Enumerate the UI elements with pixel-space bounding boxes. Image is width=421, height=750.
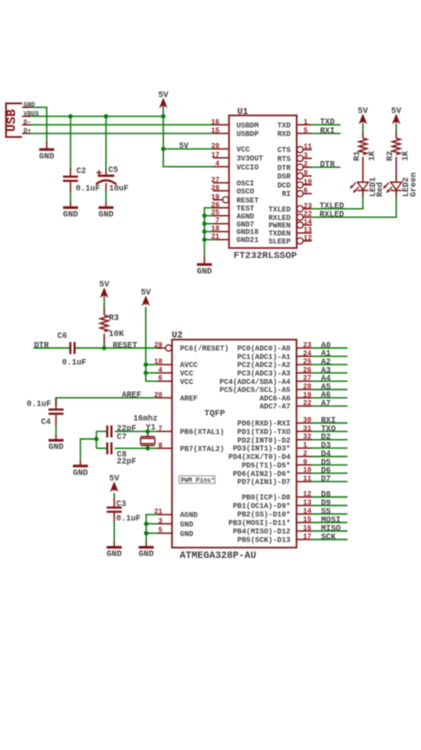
wire XTAL2 net xyxy=(115,447,157,449)
svg-text:GND: GND xyxy=(48,442,63,452)
U2 pin 17 PB5(SCK)-D13 xyxy=(237,534,311,546)
svg-text:12: 12 xyxy=(304,235,312,243)
U2 pin 8 PB7(XTAL2) xyxy=(157,442,224,454)
svg-text:DCD: DCD xyxy=(277,182,291,190)
U2 pin 20 AREF xyxy=(154,392,198,404)
capacitor C4 0.1uF xyxy=(27,398,64,435)
svg-text:USBDM: USBDM xyxy=(237,122,260,130)
svg-text:GND: GND xyxy=(73,468,88,478)
svg-text:C3: C3 xyxy=(116,500,126,509)
svg-text:6: 6 xyxy=(158,375,162,383)
svg-text:PD1(TXD)-TXO: PD1(TXD)-TXO xyxy=(237,429,291,437)
svg-text:GND21: GND21 xyxy=(237,237,260,245)
wire net D8 xyxy=(312,496,348,498)
svg-text:2: 2 xyxy=(304,161,308,169)
svg-text:0.1uF: 0.1uF xyxy=(76,184,100,193)
svg-text:ADC6-A6: ADC6-A6 xyxy=(259,395,291,403)
svg-text:GND18: GND18 xyxy=(237,229,260,237)
svg-text:5: 5 xyxy=(158,527,162,535)
svg-text:30: 30 xyxy=(303,417,311,425)
svg-text:PD3(INT1)-D3*: PD3(INT1)-D3* xyxy=(233,446,291,454)
svg-text:Green: Green xyxy=(409,172,418,197)
wire RESET net xyxy=(76,347,162,349)
svg-text:D-: D- xyxy=(24,119,32,126)
ground (USB shell) xyxy=(39,141,54,161)
U2 pin 4 VCC xyxy=(157,367,194,379)
capacitor C5 10uF polarized xyxy=(96,116,129,202)
svg-text:GND: GND xyxy=(39,151,54,161)
U1 pin 17 3V3OUT xyxy=(211,152,264,164)
U2 pin 24 PC1(ADC1)-A1 xyxy=(237,350,311,362)
svg-text:10uF: 10uF xyxy=(109,184,129,193)
svg-text:DTR: DTR xyxy=(277,165,291,173)
wire net D3 xyxy=(312,447,348,449)
svg-text:PB3(MOSI)-D11*: PB3(MOSI)-D11* xyxy=(228,520,290,528)
svg-text:PC3(ADC3)-A3: PC3(ADC3)-A3 xyxy=(237,371,291,379)
svg-text:PC2(ADC2)-A2: PC2(ADC2)-A2 xyxy=(237,362,290,370)
junction 5V/VCC wire xyxy=(161,147,165,151)
svg-text:DTR: DTR xyxy=(34,342,49,351)
svg-text:OSCI: OSCI xyxy=(237,180,255,188)
wire RXLED net to LED2 xyxy=(312,197,396,217)
svg-text:7: 7 xyxy=(215,218,219,226)
svg-text:15: 15 xyxy=(211,127,219,135)
svg-text:RXD: RXD xyxy=(277,131,291,139)
svg-text:7: 7 xyxy=(158,425,162,433)
svg-text:Red: Red xyxy=(375,182,385,197)
wire net TXO xyxy=(312,430,348,432)
U2 pin 30 PD0(RXD)-RXI xyxy=(237,417,311,429)
U2 pin 3 GND xyxy=(157,518,194,530)
svg-text:RXI: RXI xyxy=(320,127,335,136)
U1 pin 28 OSCO xyxy=(211,185,255,197)
U1 pin 2 DTR xyxy=(277,161,311,173)
svg-text:PB2(SS)-D10*: PB2(SS)-D10* xyxy=(237,512,290,520)
svg-text:17: 17 xyxy=(303,534,311,542)
wire RXI net xyxy=(312,132,341,134)
svg-text:TXD: TXD xyxy=(277,122,291,130)
svg-text:1: 1 xyxy=(304,119,308,127)
svg-text:25: 25 xyxy=(303,359,311,367)
U2 pin 1 PD3(INT1)-D3* xyxy=(233,442,312,454)
svg-text:GND: GND xyxy=(180,521,194,529)
wire net D9 xyxy=(312,505,348,507)
svg-text:PD7(AIN1)-D7: PD7(AIN1)-D7 xyxy=(237,479,290,487)
svg-text:20: 20 xyxy=(154,392,162,400)
svg-text:AGND: AGND xyxy=(180,512,198,520)
svg-text:C5: C5 xyxy=(108,166,118,175)
svg-text:1K: 1K xyxy=(401,150,411,161)
svg-text:22: 22 xyxy=(304,211,312,219)
PWM Pins note box xyxy=(179,476,215,484)
svg-text:R1: R1 xyxy=(352,151,362,161)
junction XTAL2/Y1 xyxy=(146,446,150,450)
U2 pin 12 PB0(ICP)-D8 xyxy=(242,491,312,503)
svg-text:GND: GND xyxy=(63,209,78,219)
5V supply xyxy=(391,106,402,123)
svg-text:R3: R3 xyxy=(109,313,119,323)
U2 pin 9 PD5(T1)-D5* xyxy=(242,459,312,471)
junction VBUS/C5 xyxy=(104,114,108,118)
junction GND pin5 xyxy=(144,531,148,535)
svg-text:14: 14 xyxy=(303,508,311,516)
wire DTR net xyxy=(312,166,341,168)
U2 pin 13 PB1(OC1A)-D9* xyxy=(233,500,312,512)
resistor R2 1K xyxy=(385,131,410,166)
svg-text:4: 4 xyxy=(215,161,219,169)
svg-text:16: 16 xyxy=(303,525,311,533)
svg-text:RESET: RESET xyxy=(113,342,138,351)
U1 pin 25 AGND xyxy=(211,210,255,222)
U1 pin 11 CTS xyxy=(277,144,312,156)
svg-text:OSCO: OSCO xyxy=(237,188,255,196)
svg-text:RXLED: RXLED xyxy=(269,215,292,223)
junction VCC pin4 xyxy=(144,371,148,375)
svg-text:FT232RLSSOP: FT232RLSSOP xyxy=(234,250,298,261)
wire net RXI xyxy=(312,422,348,424)
svg-text:23: 23 xyxy=(303,342,311,350)
U2 pin 11 PD7(AIN1)-D7 xyxy=(237,476,311,488)
crystal Y1 16mhz xyxy=(133,415,157,449)
svg-text:PD4(XCK/T0)-D4: PD4(XCK/T0)-D4 xyxy=(228,454,291,462)
resistor R3 10K xyxy=(100,307,125,348)
svg-text:USBDP: USBDP xyxy=(237,131,260,139)
wire net A1 xyxy=(312,355,348,357)
svg-text:PWREN: PWREN xyxy=(269,223,291,231)
svg-text:1: 1 xyxy=(303,442,307,450)
svg-text:GND: GND xyxy=(107,549,122,559)
wire net D5 xyxy=(312,464,348,466)
svg-text:PD6(AIN2)-D6*: PD6(AIN2)-D6* xyxy=(233,471,291,479)
wire AGND/GND pins to ground xyxy=(146,515,157,542)
U2 pin 26 PC3(ADC3)-A3 xyxy=(237,367,311,379)
svg-text:AREF: AREF xyxy=(122,391,142,400)
U2 pin 14 PB2(SS)-D10* xyxy=(237,508,311,520)
wire net SS xyxy=(312,513,348,515)
U1 pin 23 TXLED xyxy=(269,203,312,215)
LED LED1 Red xyxy=(350,166,385,197)
svg-text:2: 2 xyxy=(303,451,307,459)
svg-text:21: 21 xyxy=(154,509,162,517)
wire net SCK xyxy=(312,539,348,541)
svg-text:D7: D7 xyxy=(321,475,331,484)
wire D+ to U1 USBDP xyxy=(31,132,214,134)
svg-text:28: 28 xyxy=(303,384,311,392)
svg-text:C2: C2 xyxy=(76,167,86,176)
junction GND pins 25 xyxy=(202,214,206,218)
wire VBUS net xyxy=(31,115,164,117)
svg-text:RTS: RTS xyxy=(277,156,291,164)
5V supply xyxy=(99,280,110,297)
svg-text:9: 9 xyxy=(303,459,307,467)
U1 pin 9 DSR xyxy=(277,170,311,182)
svg-text:VCC: VCC xyxy=(237,147,251,155)
U2 pin 29 PC6(/RESET) xyxy=(154,342,229,354)
U2 pin 2 PD4(XCK/T0)-D4 xyxy=(228,451,311,463)
svg-text:26: 26 xyxy=(303,367,311,375)
U1 pin 4 VCCIO xyxy=(213,161,259,173)
wire net MOSI xyxy=(312,522,348,524)
svg-text:4: 4 xyxy=(158,367,162,375)
svg-text:11: 11 xyxy=(304,144,312,152)
svg-text:14: 14 xyxy=(304,219,312,227)
U1 pin 26 TEST xyxy=(211,202,255,214)
wire 5V arrow stem xyxy=(162,107,164,117)
wire 5V to R3 xyxy=(103,297,105,307)
svg-text:18: 18 xyxy=(211,226,219,234)
5V supply xyxy=(109,474,120,491)
junction VBUS/5V xyxy=(161,114,165,118)
U1 pin 22 RXLED xyxy=(269,211,312,223)
svg-text:PB6(XTAL1): PB6(XTAL1) xyxy=(180,429,224,437)
svg-text:0.1uF: 0.1uF xyxy=(62,358,86,367)
svg-text:C7: C7 xyxy=(117,433,127,442)
svg-text:PC1(ADC1)-A1: PC1(ADC1)-A1 xyxy=(237,354,291,362)
U1 pin 14 PWREN xyxy=(269,219,312,231)
wire DTR to C6 xyxy=(34,347,71,349)
svg-text:9: 9 xyxy=(304,170,308,178)
svg-text:13: 13 xyxy=(304,227,312,235)
wire TXD net xyxy=(312,124,341,126)
capacitor C2 0.1uF xyxy=(63,116,100,202)
wire net D4 xyxy=(312,456,348,458)
wire net MISO xyxy=(312,530,348,532)
svg-text:5V: 5V xyxy=(109,474,120,484)
U1 pin 20 VCC xyxy=(211,143,250,155)
svg-text:GND: GND xyxy=(197,266,212,276)
wire net A5 xyxy=(312,389,348,391)
svg-text:PC4(ADC4/SDA)-A4: PC4(ADC4/SDA)-A4 xyxy=(220,379,292,387)
svg-text:VCC: VCC xyxy=(180,379,194,387)
U2 pin 31 PD1(TXD)-TXO xyxy=(237,425,311,437)
U1 pin 16 USBDM xyxy=(211,119,259,131)
svg-text:5V: 5V xyxy=(99,280,110,290)
U2 pin 10 PD6(AIN2)-D6* xyxy=(233,467,312,479)
svg-text:PC0(ADC0)-A0: PC0(ADC0)-A0 xyxy=(237,346,291,354)
svg-text:U1: U1 xyxy=(237,107,248,117)
wire net A4 xyxy=(312,380,348,382)
svg-text:5: 5 xyxy=(304,127,308,135)
5V supply xyxy=(358,106,369,123)
svg-text:TEST: TEST xyxy=(237,205,255,213)
svg-text:0.1uF: 0.1uF xyxy=(27,400,51,409)
svg-text:PB5(SCK)-D13: PB5(SCK)-D13 xyxy=(237,537,291,545)
svg-text:ADC7-A7: ADC7-A7 xyxy=(259,404,290,412)
U1 pin 13 TXDEN xyxy=(269,227,312,239)
svg-text:17: 17 xyxy=(211,152,219,160)
svg-text:DTR: DTR xyxy=(320,161,335,170)
svg-text:TXDEN: TXDEN xyxy=(269,231,291,239)
ground (C2) xyxy=(63,202,78,219)
IC U2 ATMEGA328P body xyxy=(172,330,297,561)
svg-text:25: 25 xyxy=(211,210,219,218)
wire U1 TEST/AGND/GND pins to ground xyxy=(204,208,213,257)
svg-text:U2: U2 xyxy=(172,330,183,340)
wire net A0 xyxy=(312,347,348,349)
svg-text:15: 15 xyxy=(303,517,311,525)
U2 pin 25 PC2(ADC2)-A2 xyxy=(237,359,311,371)
svg-text:RESET: RESET xyxy=(237,197,260,205)
U2 pin 16 PB4(MISO)-D12 xyxy=(233,525,312,537)
svg-text:AGND: AGND xyxy=(237,213,255,221)
svg-text:PB4(MISO)-D12: PB4(MISO)-D12 xyxy=(233,529,291,537)
wire 5V to C3 xyxy=(113,493,115,498)
svg-text:8: 8 xyxy=(158,442,162,450)
wire USB GND pin to ground xyxy=(31,107,47,141)
5V supply xyxy=(158,90,169,107)
U1 pin 7 GND7 xyxy=(213,218,254,230)
junction VBUS/C2 xyxy=(68,114,72,118)
U2 pin 22 ADC7-A7 xyxy=(259,400,311,412)
U2 pin 21 AGND xyxy=(154,509,198,521)
svg-text:6: 6 xyxy=(304,188,308,196)
svg-text:PWM Pins*: PWM Pins* xyxy=(181,477,215,484)
svg-text:C4: C4 xyxy=(41,418,51,427)
junction GND pin3 xyxy=(144,522,148,526)
wire 5V to R1 xyxy=(362,124,364,132)
capacitor C6 0.1uF xyxy=(57,332,86,368)
U2 pin 6 VCC xyxy=(157,375,194,387)
svg-text:RXLED: RXLED xyxy=(320,211,345,220)
wire AREF net xyxy=(56,398,157,406)
wire VBUS down to U1 VCC/VCCIO xyxy=(163,116,213,166)
svg-text:AVCC: AVCC xyxy=(180,362,198,370)
svg-text:PD5(T1)-D5*: PD5(T1)-D5* xyxy=(242,463,291,471)
svg-text:ATMEGA328P-AU: ATMEGA328P-AU xyxy=(180,550,257,561)
capacitor C3 0.1uF xyxy=(107,498,141,542)
svg-text:R2: R2 xyxy=(385,151,395,161)
wire XTAL1 net xyxy=(115,430,157,432)
svg-text:5V: 5V xyxy=(141,288,152,298)
svg-text:27: 27 xyxy=(303,375,311,383)
junction C7C8 gnd tap xyxy=(94,437,98,441)
U1 pin 10 DCD xyxy=(277,179,312,191)
5V supply xyxy=(141,288,152,305)
svg-text:PC6(/RESET): PC6(/RESET) xyxy=(180,346,229,354)
svg-text:PD0(RXD)-RXI: PD0(RXD)-RXI xyxy=(237,421,290,429)
svg-text:18: 18 xyxy=(154,359,162,367)
U2 pin 32 PD2(INT0)-D2 xyxy=(237,434,311,446)
U1 pin 6 RI xyxy=(282,188,312,200)
U1 pin 21 GND21 xyxy=(211,234,259,246)
ground (U1) xyxy=(197,257,212,277)
svg-text:VCCIO: VCCIO xyxy=(237,164,260,172)
wire 5V to R2 xyxy=(395,124,397,132)
svg-text:CTS: CTS xyxy=(277,147,291,155)
svg-text:PD2(INT0)-D2: PD2(INT0)-D2 xyxy=(237,437,290,445)
svg-text:PB7(XTAL2): PB7(XTAL2) xyxy=(180,446,224,454)
ground (C4) xyxy=(48,435,63,452)
U2 pin 19 ADC6-A6 xyxy=(259,392,311,404)
svg-text:5V: 5V xyxy=(179,142,189,151)
svg-text:24: 24 xyxy=(303,350,311,358)
svg-text:16mhz: 16mhz xyxy=(133,415,157,424)
svg-text:PB1(OC1A)-D9*: PB1(OC1A)-D9* xyxy=(233,503,291,511)
svg-text:1K: 1K xyxy=(367,150,377,161)
junction XTAL1/Y1 xyxy=(146,429,150,433)
svg-text:RI: RI xyxy=(282,191,291,199)
svg-text:GND: GND xyxy=(180,531,194,539)
svg-text:22pF: 22pF xyxy=(117,458,137,467)
svg-text:5V: 5V xyxy=(391,106,402,116)
U1 pin 18 GND18 xyxy=(211,226,259,238)
capacitor C7 22pF xyxy=(106,425,136,442)
svg-text:0.1uF: 0.1uF xyxy=(116,515,140,524)
wire C7/C8 common to ground xyxy=(80,431,106,459)
junction GND pins 18 xyxy=(202,229,206,233)
LED LED2 Green xyxy=(383,166,418,197)
U2 pin 7 PB6(XTAL1) xyxy=(157,425,224,437)
svg-text:27: 27 xyxy=(211,177,219,185)
svg-text:TXLED: TXLED xyxy=(269,206,292,214)
svg-text:10: 10 xyxy=(304,179,312,187)
U1 pin 12 SLEEP xyxy=(269,235,312,247)
svg-text:SLEEP: SLEEP xyxy=(269,239,292,247)
junction AVCC xyxy=(144,362,148,366)
wire to U1 VCC pin 20 xyxy=(163,148,213,150)
svg-text:31: 31 xyxy=(303,425,311,433)
svg-text:11: 11 xyxy=(303,476,311,484)
svg-text:SCK: SCK xyxy=(321,533,336,542)
svg-text:3: 3 xyxy=(158,518,162,526)
ground (C5) xyxy=(98,202,113,219)
U1 pin 3 RTS xyxy=(277,152,311,164)
IC U1 FT232RL SSOP body xyxy=(229,107,297,261)
svg-text:3: 3 xyxy=(304,152,308,160)
U2 pin 15 PB3(MOSI)-D11* xyxy=(228,517,311,529)
svg-text:22: 22 xyxy=(303,400,311,408)
resistor R1 1K xyxy=(352,131,377,166)
U1 pin 5 RXD xyxy=(277,127,311,139)
svg-text:20: 20 xyxy=(211,143,219,151)
U2 pin 27 PC4(ADC4/SDA)-A4 xyxy=(220,375,312,387)
svg-text:GND7: GND7 xyxy=(237,221,255,229)
svg-text:USB: USB xyxy=(5,109,19,132)
svg-text:5V: 5V xyxy=(158,90,169,100)
ground (Y1 caps) xyxy=(73,460,88,478)
wire net A6 xyxy=(312,397,348,399)
wire net A7 xyxy=(312,405,348,407)
U1 pin 15 USBDP xyxy=(211,127,259,139)
svg-text:D+: D+ xyxy=(24,127,32,134)
U1 pin 27 OSCI xyxy=(211,177,254,189)
wire net A2 xyxy=(312,364,348,366)
svg-text:5V: 5V xyxy=(358,106,369,116)
ground (U2 gnd pins) xyxy=(139,542,154,560)
svg-text:PB0(ICP)-D8: PB0(ICP)-D8 xyxy=(242,495,291,503)
U1 pin 1 TXD xyxy=(277,119,311,131)
svg-text:GND: GND xyxy=(139,549,154,559)
svg-text:28: 28 xyxy=(211,185,219,193)
junction RESET/R3 xyxy=(102,346,106,350)
svg-text:29: 29 xyxy=(154,342,162,350)
wire net D2 xyxy=(312,439,348,441)
USB connector X1 xyxy=(5,101,39,137)
svg-text:C6: C6 xyxy=(57,332,67,341)
wire D- to U1 USBDM xyxy=(31,124,214,126)
svg-text:26: 26 xyxy=(211,202,219,210)
svg-text:21: 21 xyxy=(211,234,219,242)
svg-text:A7: A7 xyxy=(321,400,331,409)
svg-text:19: 19 xyxy=(211,194,219,202)
U2 pin 23 PC0(ADC0)-A0 xyxy=(237,342,311,354)
svg-text:DSR: DSR xyxy=(277,174,291,182)
U2 pin 18 AVCC xyxy=(154,359,198,371)
svg-text:19: 19 xyxy=(303,392,311,400)
svg-text:TQFP: TQFP xyxy=(204,408,225,418)
ground (C3) xyxy=(107,542,122,560)
capacitor C8 22pF xyxy=(106,442,136,466)
